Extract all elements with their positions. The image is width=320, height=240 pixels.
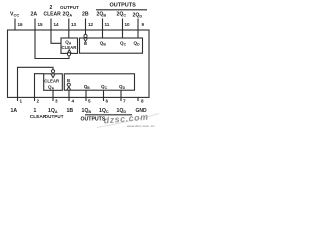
pin 3 stub xyxy=(52,97,54,101)
svg-text:QD: QD xyxy=(134,40,141,46)
clock wedge B1 xyxy=(67,87,71,90)
clock wedge A2 xyxy=(67,50,71,54)
pin 5 stub xyxy=(85,97,87,101)
wire 1QD: pin7 up into B1 bottom xyxy=(120,90,122,97)
clock wedge B2 xyxy=(84,38,88,41)
svg-text:2A: 2A xyxy=(31,12,38,18)
svg-text:OUTPUTS: OUTPUTS xyxy=(110,2,137,8)
clock wedge A1 xyxy=(51,74,55,78)
wire 2QA: pin13 down into A2 top xyxy=(68,30,70,38)
wire 1B: pin4 up into B1 bottom clock xyxy=(68,90,70,97)
svg-text:2: 2 xyxy=(37,99,40,104)
flip-flop A1 (divide-by-2, bottom half) xyxy=(44,74,63,91)
svg-text:1QB: 1QB xyxy=(82,108,92,114)
svg-text:OUTPUTS: OUTPUTS xyxy=(81,117,106,123)
svg-text:VCC: VCC xyxy=(10,12,19,18)
watermark swoosh xyxy=(97,112,159,128)
svg-text:12: 12 xyxy=(88,22,94,27)
clock bubble B1 xyxy=(67,83,70,86)
package outline U1 (DIP body) xyxy=(8,30,150,97)
pin 1 stub xyxy=(17,97,19,101)
pin 11 2QB stub xyxy=(102,19,104,31)
svg-text:QC: QC xyxy=(101,84,108,90)
clock bubble B2 xyxy=(84,34,87,37)
pin 2 stub xyxy=(34,97,36,101)
svg-text:1A: 1A xyxy=(11,108,18,114)
svg-text:2B: 2B xyxy=(82,12,89,18)
svg-text:B: B xyxy=(84,41,87,46)
wire 2B: pin12 down to clock bubble of B2 xyxy=(85,30,87,34)
wire 1QA: pin3 up into A1 bottom xyxy=(52,90,54,97)
svg-text:3: 3 xyxy=(55,99,58,104)
counter B2 (divide-by-5, top half) xyxy=(80,38,143,53)
svg-text:QB: QB xyxy=(84,84,91,90)
svg-text:2QB: 2QB xyxy=(97,12,107,18)
pin 13 2QA stub xyxy=(68,19,70,31)
svg-text:8: 8 xyxy=(141,99,144,104)
clock bubble A1 xyxy=(51,70,54,73)
pin 15 2A stub xyxy=(34,19,36,31)
svg-text:1: 1 xyxy=(34,108,37,114)
svg-text:QC: QC xyxy=(120,40,127,46)
svg-text:4: 4 xyxy=(72,99,75,104)
svg-text:www.dzsc.com .cn: www.dzsc.com .cn xyxy=(126,124,155,128)
svg-text:1: 1 xyxy=(20,99,23,104)
pin 8 stub (GND) xyxy=(137,97,139,101)
svg-text:1B: 1B xyxy=(67,108,74,114)
svg-text:2: 2 xyxy=(50,5,53,11)
pin 10 2QC stub xyxy=(122,19,124,31)
svg-text:QB: QB xyxy=(100,40,107,46)
pin 14 2CLEAR stub xyxy=(50,19,52,31)
svg-text:9: 9 xyxy=(142,22,145,27)
pin 12 2B stub xyxy=(85,19,87,31)
svg-text:2QA: 2QA xyxy=(63,12,73,18)
wire 1QC: pin6 up into B1 bottom xyxy=(103,90,105,97)
svg-text:B: B xyxy=(67,78,70,83)
OUTPUTS underline (bottom) xyxy=(85,114,132,116)
pin 16 VCC stub xyxy=(14,19,16,31)
flip-flop A2 (divide-by-2, top half) xyxy=(61,38,78,53)
svg-text:OUTPUT: OUTPUT xyxy=(45,114,64,119)
wire 1QB: pin5 up into B1 bottom xyxy=(85,90,87,97)
pin 7 stub xyxy=(120,97,122,101)
svg-text:QD: QD xyxy=(119,84,126,90)
wire 2QC: pin10 down into B2 top xyxy=(122,30,124,38)
svg-text:QA: QA xyxy=(48,85,55,91)
svg-text:6: 6 xyxy=(106,99,109,104)
svg-text:2QC: 2QC xyxy=(117,12,127,18)
svg-text:14: 14 xyxy=(54,22,60,27)
wire 1CLEAR: pin2 up, right to A1 top-left xyxy=(35,74,44,98)
pin 9 2QD stub xyxy=(137,19,139,31)
wire 2QD: pin9 down into B2 top xyxy=(137,30,139,38)
svg-text:7: 7 xyxy=(123,99,126,104)
wire 2CLEAR: pin14 down, right into A2 left edge xyxy=(51,30,61,43)
wire 2QB: pin11 down into B2 top xyxy=(102,30,104,38)
svg-text:OUTPUT: OUTPUT xyxy=(60,5,79,10)
OUTPUTS overline (top) xyxy=(96,9,147,11)
svg-text:11: 11 xyxy=(105,22,110,27)
svg-text:13: 13 xyxy=(71,22,77,27)
svg-text:CLEAR: CLEAR xyxy=(44,12,62,18)
pin 4 stub xyxy=(68,97,70,101)
svg-text:10: 10 xyxy=(125,22,131,27)
svg-text:15: 15 xyxy=(38,22,44,27)
pin 6 stub xyxy=(103,97,105,101)
svg-text:2QD: 2QD xyxy=(133,13,143,19)
wire 1A: pin1 up, right, down to clock bubble of A1 xyxy=(18,67,54,97)
wire 2A: pin15 down, right to clock of A2 xyxy=(35,30,69,59)
svg-text:1QC: 1QC xyxy=(99,108,109,114)
svg-text:CLEAR: CLEAR xyxy=(44,78,60,83)
clock bubble A2 xyxy=(67,53,70,56)
svg-text:5: 5 xyxy=(88,99,91,104)
counter B1 (divide-by-5, bottom half) xyxy=(64,74,134,90)
svg-text:16: 16 xyxy=(18,22,24,27)
